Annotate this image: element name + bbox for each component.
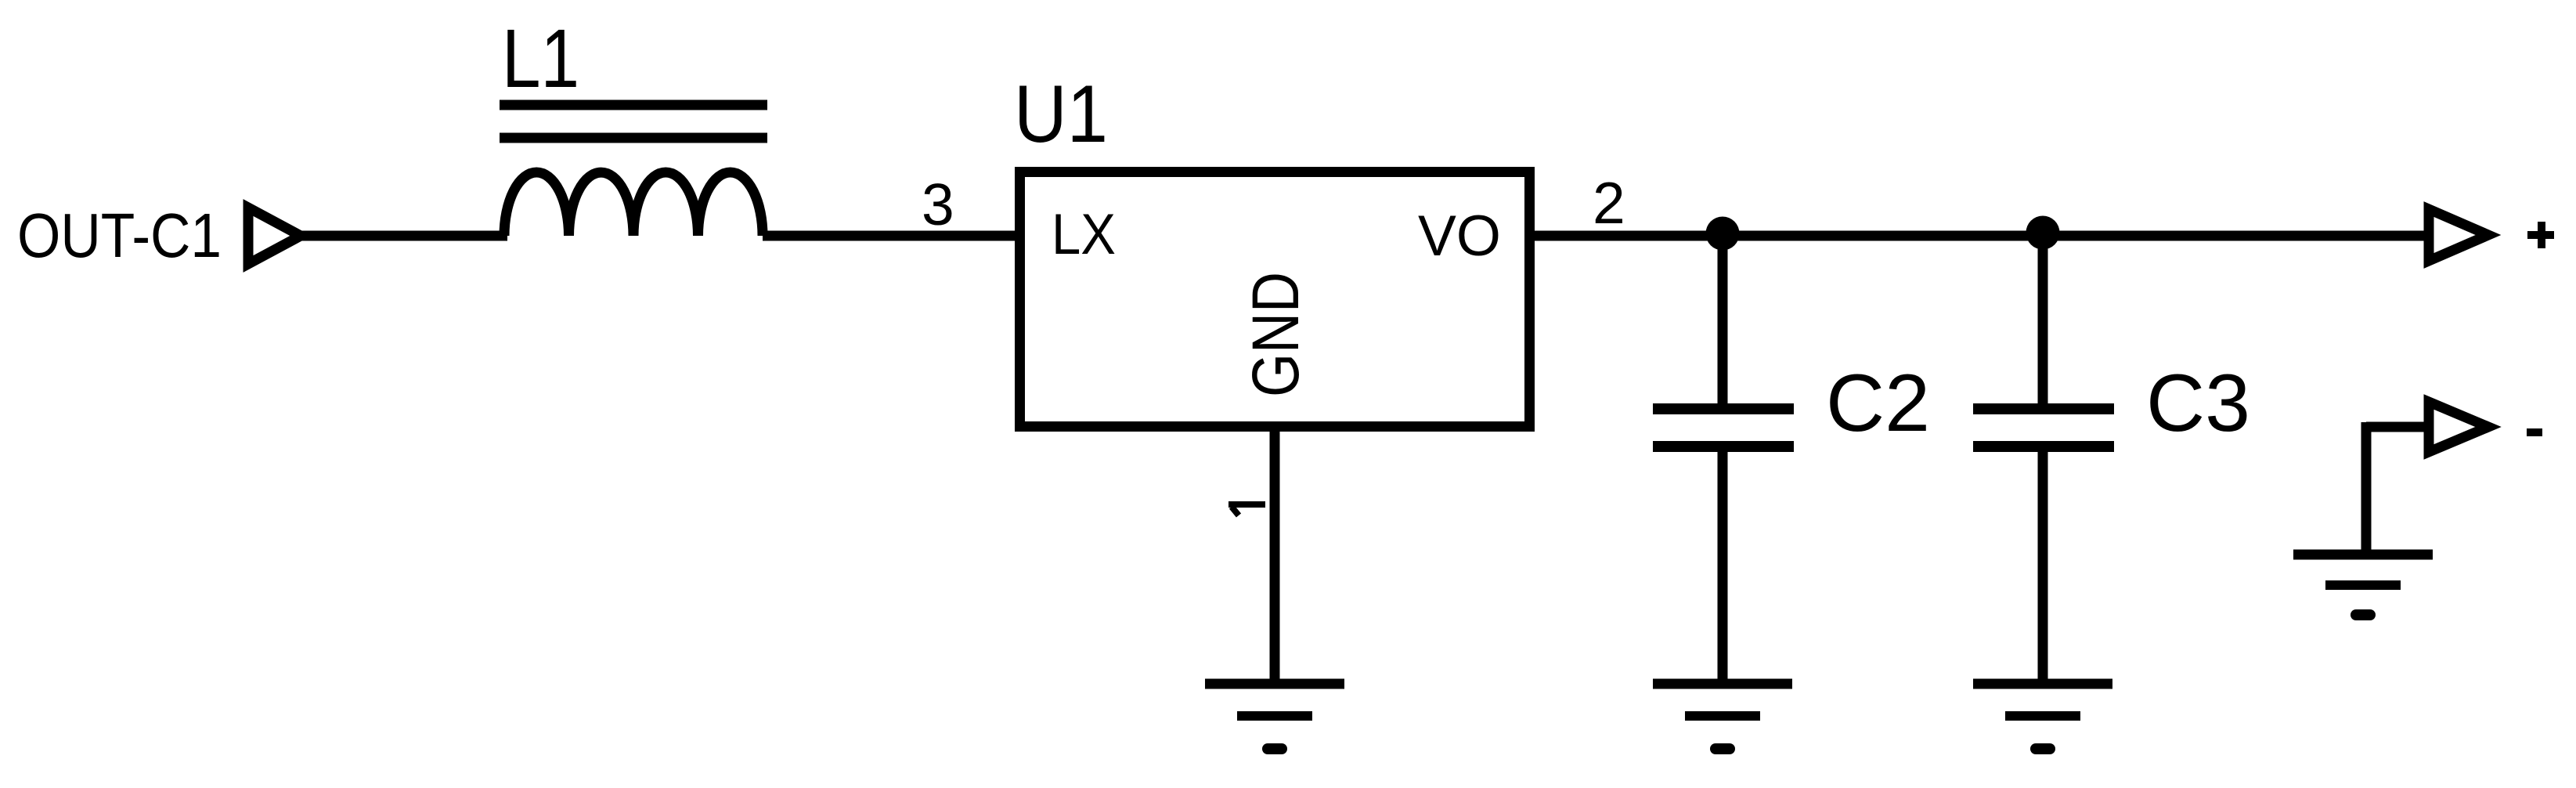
wire C2 to ground: [1718, 448, 1728, 680]
wire junction to C2 top plate: [1718, 233, 1728, 407]
wire U1 VO to + port: [1530, 231, 2424, 241]
ground G1 bar 2: [1237, 711, 1312, 721]
svg-text:GND: GND: [1239, 272, 1312, 397]
capacitor C2 top plate: [1653, 403, 1794, 414]
junction node at C3: [2026, 216, 2060, 250]
capacitor C2 bottom plate: [1653, 441, 1794, 452]
ground G1 bar 1: [1205, 679, 1344, 689]
svg-text:C3: C3: [2146, 358, 2250, 449]
svg-text:U1: U1: [1014, 69, 1108, 160]
ground G1 bar 3: [1268, 743, 1282, 754]
ground G3 bar 1: [1973, 679, 2112, 689]
port + triangle: [2429, 209, 2488, 261]
ground G4 bar 3: [2356, 609, 2370, 620]
capacitor C3 bottom plate: [1973, 441, 2114, 452]
wire - port horizontal: [2366, 422, 2424, 432]
port - triangle: [2429, 402, 2488, 452]
svg-text:LX: LX: [1052, 203, 1116, 266]
wire U1 GND pin 1: [1270, 427, 1280, 680]
svg-text:L1: L1: [502, 13, 579, 105]
ground G2 bar 3: [1716, 743, 1730, 754]
svg-text:2: 2: [1593, 170, 1625, 236]
label -: [2527, 428, 2542, 436]
junction node at C2: [1706, 217, 1740, 251]
svg-text:OUT-C1: OUT-C1: [17, 201, 222, 270]
svg-text:VO: VO: [1418, 204, 1501, 268]
ground G2 bar 2: [1685, 711, 1760, 721]
label + horizontal stroke: [2527, 231, 2554, 239]
wire C3 to ground: [2038, 448, 2048, 680]
capacitor C3 top plate: [1973, 403, 2114, 414]
ground G4 bar 1: [2293, 550, 2433, 560]
label + vertical stroke: [2538, 222, 2545, 248]
wire input to L1: [299, 231, 507, 241]
ground G4 bar 2: [2325, 580, 2401, 590]
svg-text:3: 3: [922, 172, 954, 237]
inductor L1 core bar upper: [500, 100, 767, 110]
pin number 1: [1228, 501, 1265, 508]
wire - port vertical: [2361, 422, 2372, 550]
wire L1 to U1 pin 3: [763, 231, 1018, 241]
ground G2 bar 1: [1653, 679, 1792, 689]
ground G3 bar 2: [2005, 711, 2080, 721]
ground G3 bar 3: [2036, 743, 2050, 754]
IC U1 body: [1020, 172, 1530, 427]
wire junction to C3 top plate: [2038, 233, 2048, 407]
inductor L1 core bar lower: [500, 133, 767, 143]
port OUT-C1 input triangle: [248, 208, 301, 264]
svg-text:C2: C2: [1826, 358, 1930, 449]
inductor L1 winding: [504, 172, 763, 236]
